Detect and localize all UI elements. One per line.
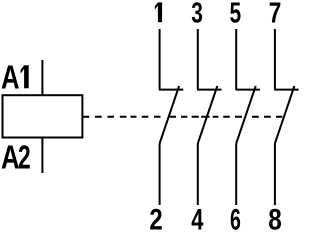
svg-text:4: 4 (191, 202, 204, 230)
wire contact3 top (235, 29, 237, 90)
wire contact3 bottom (235, 144, 237, 206)
svg-text:6: 6 (230, 203, 241, 230)
node contact2 fixed tick (197, 89, 221, 91)
label pin 1 (155, 2, 162, 22)
wire contact1 bottom (159, 144, 161, 206)
wire mechanical link (dashed) (83, 116, 282, 118)
contact NO 5-6 blade (236, 86, 256, 144)
contact NO 1-2 blade (160, 86, 180, 144)
contact NO 3-4 blade (198, 86, 218, 144)
wire contact2 top (197, 29, 199, 90)
svg-text:2: 2 (18, 139, 31, 176)
wire coil bottom terminal (41, 138, 43, 174)
node contact4 fixed tick (274, 89, 298, 91)
wire contact1 top (159, 29, 161, 90)
svg-text:A: A (1, 60, 20, 97)
svg-text:7: 7 (269, 0, 282, 29)
label A1 (1, 60, 29, 97)
svg-text:8: 8 (268, 202, 282, 230)
wire coil top terminal (41, 60, 43, 95)
wire contact4 top (274, 29, 276, 90)
svg-text:2: 2 (149, 202, 162, 230)
svg-text:5: 5 (229, 0, 241, 29)
wire contact2 bottom (197, 144, 199, 206)
label A2 (1, 139, 31, 176)
coil K1 (3, 95, 83, 137)
wire contact4 bottom (274, 144, 276, 206)
node contact1 fixed tick (159, 89, 183, 91)
svg-text:A: A (1, 139, 20, 176)
node contact3 fixed tick (236, 89, 260, 91)
svg-text:3: 3 (191, 0, 203, 29)
contact NO 7-8 blade (275, 86, 295, 144)
